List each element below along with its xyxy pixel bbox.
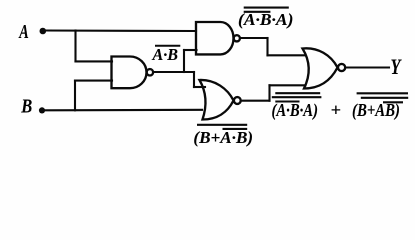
wire to U1 upper input — [76, 60, 113, 62]
wire U3 output — [242, 100, 270, 102]
nor U4 body (output) — [303, 48, 338, 88]
wire U1 output — [153, 71, 194, 73]
svg-text:B: B — [20, 96, 32, 118]
wire U2 output vertical jog — [266, 38, 268, 55]
svg-text:A: A — [18, 21, 29, 43]
wire to U2 lower input — [184, 49, 197, 51]
label (A·B·A) outer bar — [244, 7, 289, 9]
group2 middle bar — [361, 97, 408, 99]
wire A horizontal — [46, 29, 196, 32]
label A·B overline bar — [155, 45, 180, 47]
wire junction vertical to U2 — [183, 50, 185, 72]
wire A branch vertical — [74, 31, 76, 62]
group1 middle bar — [272, 96, 322, 98]
svg-text:A·B: A·B — [152, 45, 178, 64]
wire U2 output — [241, 37, 268, 39]
label (B+A·B) inner bar — [223, 128, 248, 130]
wire vertical down to U3 — [193, 72, 195, 87]
group1 top bar — [275, 92, 320, 94]
wire U3 output vertical jog — [268, 85, 270, 100]
svg-text:(A·B·A): (A·B·A) — [238, 10, 293, 29]
nor U3 body (bottom) — [200, 80, 234, 120]
nand U1 body (A·B) — [112, 57, 147, 89]
wire to U3 upper input — [194, 86, 205, 88]
node B terminal dot — [39, 107, 45, 113]
nand U2 body (top) — [196, 22, 234, 54]
nand U2 bubble — [234, 35, 240, 41]
group2 top bar — [357, 92, 408, 94]
nor U4 bubble — [338, 64, 345, 71]
wire to U1 lower input — [75, 80, 112, 82]
wire B branch vertical — [74, 81, 76, 111]
wire to U4 lower input — [270, 84, 306, 86]
nand U1 bubble — [147, 69, 153, 75]
label (B+A·B) outer bar — [197, 124, 247, 126]
group1 inner bar — [275, 100, 299, 102]
label (A·B·A) inner bar — [244, 11, 271, 13]
wire to U4 upper input — [268, 54, 306, 56]
nor U3 bubble — [234, 97, 241, 104]
svg-text:(A·B·A): (A·B·A) — [272, 100, 319, 121]
wire B horizontal — [45, 109, 202, 112]
svg-text:(B+A·B): (B+A·B) — [193, 128, 253, 147]
svg-text:+: + — [331, 100, 342, 120]
node A terminal dot — [40, 28, 47, 35]
group2 inner bar — [383, 101, 403, 103]
wire Y output — [346, 66, 390, 68]
